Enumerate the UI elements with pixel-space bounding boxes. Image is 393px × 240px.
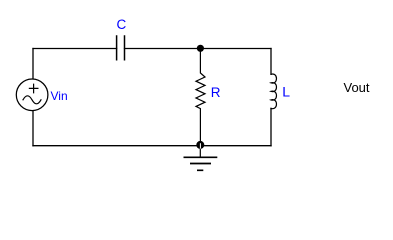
svg-text:R: R — [211, 85, 221, 100]
svg-text:L: L — [282, 84, 290, 100]
svg-text:Vin: Vin — [51, 89, 68, 103]
svg-text:C: C — [117, 17, 127, 32]
svg-text:Vout: Vout — [344, 80, 370, 95]
